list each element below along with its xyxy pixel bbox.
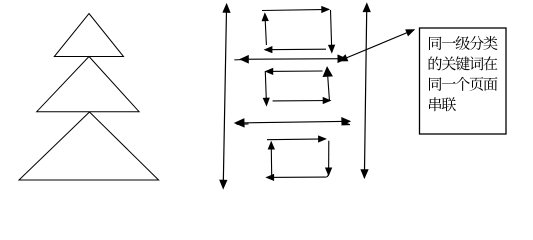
callout box border xyxy=(420,28,507,134)
small tail stroke at left head of upper horizontal arrow xyxy=(234,59,242,61)
arrow-rectangle 3 right edge (points down) xyxy=(328,141,330,175)
horizontal double-headed arrow (lower) xyxy=(235,121,350,123)
triangle tier 2 (middle of tree) xyxy=(37,57,139,112)
hook joining rect3 bottom edge to its right-edge arrowhead xyxy=(326,175,329,177)
arrow-rectangle 2 top edge (points left) xyxy=(266,70,323,72)
arrow-rectangle 1 bottom edge (points left) xyxy=(265,48,326,51)
arrow-rectangle 2 right edge (points up, large head) xyxy=(327,67,329,100)
doubled head mark at right end of lower horizontal arrow xyxy=(343,122,350,125)
arrow-rectangle 1 left edge (points up) xyxy=(265,14,267,45)
vertical double-headed arrow (left) xyxy=(223,4,226,188)
triangle tier 1 (top of tree) xyxy=(54,14,123,57)
callout text line 1: 同一级分类 xyxy=(429,36,498,50)
callout text line 4: 串联 xyxy=(429,97,456,111)
callout text line 2: 的关键词在 xyxy=(429,56,498,70)
arrow-rectangle 1 right edge (points down) xyxy=(331,10,332,52)
arrow-rectangle 3 bottom edge (points left) xyxy=(267,176,326,178)
arrow-rectangle 2 bottom edge (points right) xyxy=(273,100,331,102)
triangle tier 3 (bottom of tree) xyxy=(19,112,159,180)
small tail stroke at left head of lower horizontal arrow xyxy=(237,123,249,125)
arrow-rectangle 2 left edge (points down) xyxy=(265,72,266,106)
diagonal double-headed arrow to callout box xyxy=(340,30,415,61)
callout text line 3: 同一个页面 xyxy=(429,77,498,91)
vertical double-headed arrow (right) xyxy=(364,4,366,178)
arrow-rectangle 3 top edge (points right) xyxy=(267,138,326,141)
arrow-rectangle 3 left edge (points up) xyxy=(270,142,273,177)
arrow-rectangle 1 top edge (points right) xyxy=(262,9,329,10)
horizontal double-headed arrow (upper) xyxy=(240,58,346,61)
